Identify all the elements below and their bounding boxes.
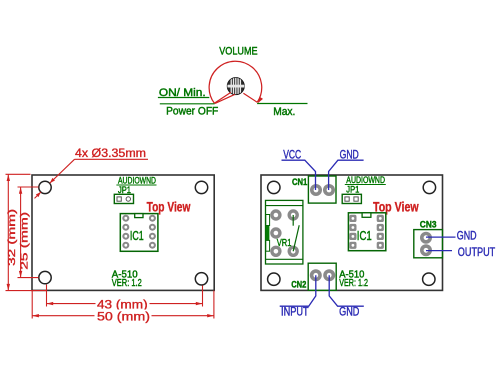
label A-510 (right board) [339, 270, 365, 281]
svg-text:Max.: Max. [273, 106, 295, 118]
Power OFF position line [160, 103, 215, 105]
Max position line [257, 103, 307, 105]
svg-text:JP1: JP1 [118, 185, 131, 195]
svg-text:VER: 1.2: VER: 1.2 [112, 278, 142, 289]
svg-text:JP1: JP1 [346, 184, 359, 194]
label VER: 1.2 (right board) [339, 278, 368, 289]
jumper JP1 (left board) [114, 194, 133, 203]
svg-text:AUDIOWND: AUDIOWND [346, 175, 385, 185]
svg-text:4x Ø3.35mm: 4x Ø3.35mm [75, 148, 146, 160]
label Power OFF [166, 106, 218, 118]
dimension 32 (mm) [6, 174, 47, 290]
connector CN1 [308, 176, 336, 203]
silkscreen AUDIOWND (right board) [345, 175, 386, 185]
label VOLUME [219, 46, 257, 58]
dimension 43 (mm) [47, 285, 203, 312]
pointer line 2 [215, 94, 235, 103]
svg-text:32 (mm): 32 (mm) [6, 209, 18, 266]
connector CN3 [414, 230, 443, 258]
svg-text:IC1: IC1 [357, 229, 372, 243]
label VER: 1.2 (left board) [112, 278, 142, 289]
knob VR (potentiometer shaft) [227, 77, 244, 96]
label CN1 [292, 177, 308, 188]
pointer line 3 [243, 93, 257, 102]
svg-text:IC1: IC1 [130, 229, 144, 243]
svg-text:CN1: CN1 [292, 177, 308, 188]
mounting hole bottom-left [268, 273, 280, 285]
board outline [261, 175, 443, 290]
svg-text:AUDIOWND: AUDIOWND [118, 175, 156, 185]
svg-text:Top View: Top View [147, 199, 191, 214]
svg-text:VER: 1.2: VER: 1.2 [339, 278, 368, 289]
label JP1 (left board) [118, 185, 131, 195]
svg-text:CN2: CN2 [291, 279, 306, 290]
label CN2 [291, 279, 306, 290]
label Top View (right board) [373, 199, 419, 214]
wire OUTPUT leader [426, 247, 495, 259]
svg-text:Power OFF: Power OFF [166, 106, 218, 118]
op-amp IC1 footprint (right board) [348, 213, 385, 251]
op-amp IC1 footprint (left board) [120, 214, 158, 252]
jumper JP1 (right board) [342, 194, 361, 203]
label Top View (left board) [147, 199, 191, 214]
dimension 25 (mm) [18, 187, 39, 278]
mounting hole top-right [195, 181, 207, 193]
wire GND leader (top) [329, 150, 364, 190]
dimension 50 (mm) [32, 291, 214, 324]
mounting hole top-left [268, 181, 280, 193]
wire GND leader (right) [426, 230, 477, 242]
svg-text:OUTPUT: OUTPUT [458, 247, 495, 259]
pointer line 1 [214, 92, 231, 103]
label ON/ Min. [158, 87, 209, 99]
wire GND leader (bottom) [329, 275, 364, 318]
wire INPUT leader [280, 275, 316, 318]
mounting hole top-left [39, 181, 51, 193]
mounting hole bottom-left [39, 271, 51, 283]
mounting hole bottom-right [195, 273, 207, 285]
svg-text:50 (mm): 50 (mm) [97, 311, 150, 323]
mounting hole top-right [423, 181, 435, 193]
svg-text:25 (mm): 25 (mm) [19, 212, 31, 270]
wire VCC leader [282, 150, 316, 190]
label Max. [273, 106, 295, 118]
svg-text:GND: GND [457, 230, 477, 242]
svg-text:INPUT: INPUT [281, 307, 309, 319]
board outline [32, 175, 214, 290]
label JP1 (right board) [346, 184, 359, 194]
svg-text:CN3: CN3 [420, 219, 437, 230]
label A-510 (left board) [112, 269, 138, 280]
potentiometer VR1 footprint [266, 200, 303, 264]
label CN3 [420, 219, 437, 230]
svg-text:GND: GND [339, 307, 359, 319]
connector CN2 [308, 263, 336, 290]
mounting hole bottom-right [423, 273, 435, 285]
hole callout 4x 3.35mm [35, 148, 149, 198]
svg-text:VR1: VR1 [277, 238, 292, 249]
svg-text:VOLUME: VOLUME [219, 46, 257, 58]
rotation arc [209, 61, 263, 103]
silkscreen AUDIOWND (left board) [116, 175, 156, 185]
